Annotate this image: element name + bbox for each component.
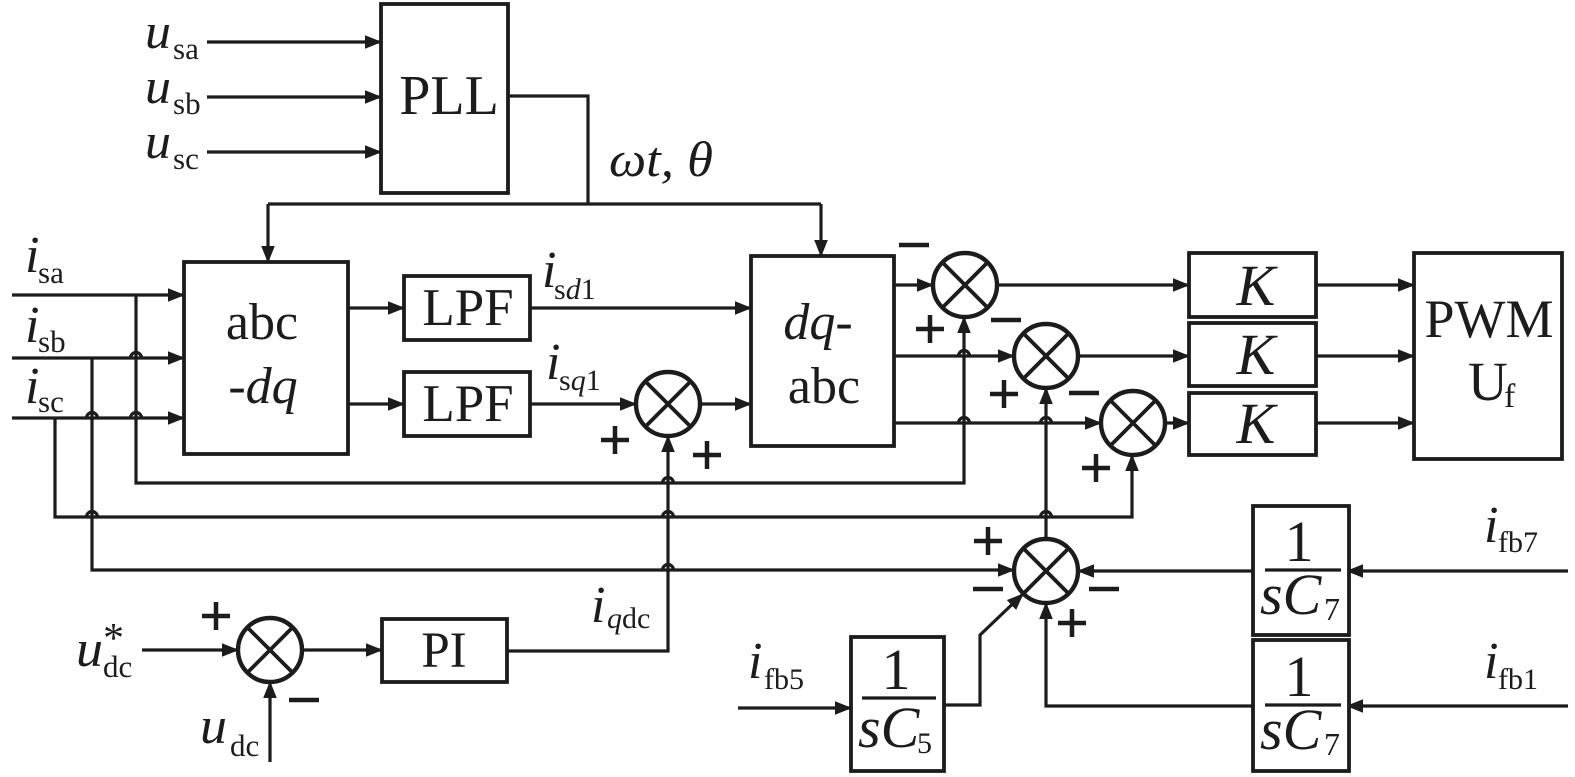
block LPF2 xyxy=(404,372,530,436)
svg-text:PWM: PWM xyxy=(1424,289,1553,349)
svg-text:LPF: LPF xyxy=(422,279,513,337)
sign plus at sum A right xyxy=(693,441,721,469)
svg-text:sd1: sd1 xyxy=(554,273,596,306)
wire hop at (1046,517) xyxy=(1041,512,1052,518)
wire dq-abc out2 to sum2 xyxy=(894,354,1014,357)
svg-text:sC: sC xyxy=(1260,697,1323,762)
svg-text:sb: sb xyxy=(173,86,201,121)
label u_sa xyxy=(145,3,199,66)
label u_dc xyxy=(200,698,259,763)
label u_sc xyxy=(145,113,199,176)
wire sum F to PI xyxy=(302,648,382,651)
wire u_sb to PLL xyxy=(207,95,381,98)
svg-text:PI: PI xyxy=(421,623,466,679)
sign plus at sum S2 xyxy=(990,380,1018,408)
svg-text:LPF: LPF xyxy=(422,375,513,433)
svg-text:7: 7 xyxy=(1324,591,1340,627)
summing junction A (i_sq1) xyxy=(636,372,700,436)
svg-text:sb: sb xyxy=(38,324,66,359)
wire hop at (92,418) xyxy=(87,413,98,419)
wire sum1 to K1 xyxy=(997,283,1189,286)
svg-text:u: u xyxy=(200,698,227,755)
wire 1/sC7 top to big sum xyxy=(1078,569,1253,572)
block K3 xyxy=(1189,391,1316,456)
svg-text:sc: sc xyxy=(173,141,199,176)
sign minus at sum F xyxy=(289,698,319,703)
svg-text:ωt, θ: ωt, θ xyxy=(609,131,713,187)
label i_sa xyxy=(25,227,64,290)
block K1 xyxy=(1189,253,1316,318)
wire K3 to PWM xyxy=(1316,421,1414,424)
svg-text:K: K xyxy=(1236,322,1279,387)
block PLL xyxy=(381,4,508,193)
svg-text:PLL: PLL xyxy=(399,65,499,127)
svg-text:f: f xyxy=(1504,378,1516,415)
wire big sum output up to sum2 xyxy=(1044,388,1047,539)
wire PLL output down xyxy=(508,96,588,204)
wire i_sc feedback to sum3 xyxy=(55,418,1132,517)
summing junction F (u_dc) xyxy=(238,618,302,682)
block dq-abc xyxy=(751,256,894,446)
svg-text:K: K xyxy=(1236,391,1279,456)
summing junction big E xyxy=(1014,539,1078,603)
wire dq-abc out3 to sum3 xyxy=(894,421,1101,424)
block LPF1 xyxy=(404,276,530,340)
sign plus at sum S1 xyxy=(916,315,944,343)
label i_fb1 xyxy=(1484,633,1538,696)
block PI xyxy=(382,619,507,682)
svg-text:dq-: dq- xyxy=(783,294,852,351)
sign minus at sum S2 xyxy=(991,318,1021,323)
wire i_fb5 into 1/sC5 xyxy=(738,706,851,709)
wire omega-t bus xyxy=(268,202,821,205)
sign minus at big sum right xyxy=(1089,587,1119,592)
wire hop at (136,358) xyxy=(131,353,142,359)
svg-text:7: 7 xyxy=(1324,726,1340,762)
wire 1/sC5 to big sum diagonal xyxy=(944,594,1023,705)
label u_dc-ref xyxy=(76,616,132,684)
label i_sc xyxy=(25,358,64,419)
block PWM Uf xyxy=(1414,253,1562,459)
wire i_sb feedback to big sum xyxy=(92,358,1014,570)
svg-text:sa: sa xyxy=(173,31,199,66)
svg-text:sc: sc xyxy=(38,384,64,419)
svg-text:dc: dc xyxy=(103,649,132,684)
sign plus at sum F xyxy=(202,602,230,630)
wire PI output up to sum A (i_qdc) xyxy=(507,436,668,651)
block K2 xyxy=(1189,322,1316,387)
wire i_sa into abc-dq xyxy=(12,293,184,296)
label i_sd1 xyxy=(542,242,596,306)
wire hop at (668,570) xyxy=(663,565,674,571)
wire K2 to PWM xyxy=(1316,354,1414,357)
wire sum3 to K3 xyxy=(1165,421,1189,424)
sign minus at big sum left bottom xyxy=(973,587,1003,592)
block abc-dq xyxy=(184,262,348,454)
svg-text:u: u xyxy=(145,3,171,59)
wire hop at (136,418) xyxy=(131,413,142,419)
svg-text:fb1: fb1 xyxy=(1498,663,1538,696)
label i_sq1 xyxy=(546,334,601,397)
svg-text:u: u xyxy=(76,621,103,678)
wire i_sb into abc-dq xyxy=(12,356,184,359)
wire bus down into dq-abc xyxy=(819,204,822,256)
svg-text:sC: sC xyxy=(1260,562,1323,627)
svg-text:qdc: qdc xyxy=(607,602,650,635)
svg-text:abc: abc xyxy=(788,358,860,415)
wire i_sc into abc-dq xyxy=(12,416,184,419)
wire u_dc up into sum F xyxy=(268,682,271,762)
wire hop at (1046,423) xyxy=(1041,418,1052,423)
wire LPF2 to sum A (i_sq1) xyxy=(530,402,636,405)
summing junction S2 xyxy=(1014,324,1078,388)
svg-text:-dq: -dq xyxy=(228,358,297,415)
svg-text:i: i xyxy=(1484,497,1498,554)
label i_fb5 xyxy=(748,633,804,696)
svg-text:1: 1 xyxy=(882,637,911,702)
svg-text:dc: dc xyxy=(230,728,259,763)
svg-text:i: i xyxy=(1484,633,1498,690)
summing junction S1 xyxy=(933,253,997,317)
wire 1/sC7 bottom to big sum xyxy=(1046,603,1253,706)
wire abc-dq to LPF2 xyxy=(348,402,404,405)
wire i_sa feedback to sum1 xyxy=(136,295,964,483)
wire i_fb1 into 1/sC7 bottom xyxy=(1347,704,1568,707)
label i_fb7 xyxy=(1484,497,1538,559)
sign minus at sum S1 xyxy=(899,243,929,248)
wire u_dc-ref into sum F xyxy=(142,648,238,651)
svg-text:fb7: fb7 xyxy=(1498,526,1538,559)
wire u_sc to PLL xyxy=(207,150,381,153)
sign plus at sum A left xyxy=(601,426,629,454)
svg-text:fb5: fb5 xyxy=(764,663,804,696)
wire hop at (92,517) xyxy=(87,512,98,518)
svg-text:U: U xyxy=(1468,351,1508,412)
wire hop at (964,356) xyxy=(959,351,970,357)
wire hop at (964,423) xyxy=(959,418,970,423)
wire i_fb7 into 1/sC7 top xyxy=(1347,569,1568,572)
svg-text:i: i xyxy=(748,633,762,690)
wire abc-dq to LPF1 xyxy=(348,306,404,309)
block 1/sC7 top xyxy=(1253,506,1349,635)
label i_qdc xyxy=(591,577,650,635)
label u_sb xyxy=(145,58,201,121)
wire dq-abc out1 to sum1 xyxy=(894,283,933,286)
sign plus at big sum left top xyxy=(974,527,1002,555)
sign plus at sum S3 xyxy=(1082,454,1110,482)
sign minus at sum S3 xyxy=(1069,391,1099,396)
svg-text:sC: sC xyxy=(858,695,921,760)
svg-text:5: 5 xyxy=(917,727,932,760)
sign plus at big sum bottom right xyxy=(1058,609,1086,637)
svg-text:sq1: sq1 xyxy=(559,364,601,397)
wire hop at (668,483) xyxy=(663,478,674,484)
wire LPF1 to dq-abc (i_sd1) xyxy=(530,306,751,309)
wire bus down into abc-dq xyxy=(266,204,269,262)
block 1/sC5 xyxy=(851,637,944,771)
wire hop at (668,517) xyxy=(663,512,674,518)
svg-text:i: i xyxy=(591,577,605,634)
label i_sb xyxy=(25,297,66,359)
svg-text:K: K xyxy=(1236,253,1279,318)
wire sum2 to K2 xyxy=(1078,354,1189,357)
svg-text:abc: abc xyxy=(226,294,298,351)
wire K1 to PWM xyxy=(1316,283,1414,286)
wire u_sa to PLL xyxy=(207,40,381,43)
svg-text:u: u xyxy=(145,113,171,169)
svg-text:u: u xyxy=(145,58,171,114)
block 1/sC7 bottom xyxy=(1253,640,1349,771)
svg-text:sa: sa xyxy=(38,255,64,290)
summing junction S3 xyxy=(1101,391,1165,455)
wire sum A to dq-abc xyxy=(700,402,751,405)
